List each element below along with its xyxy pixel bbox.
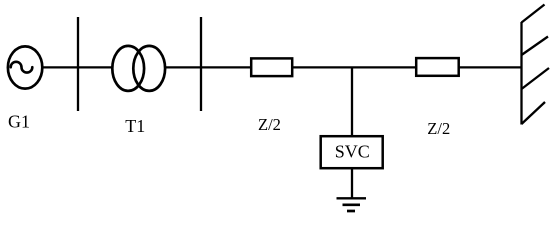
- transformer T1: [112, 46, 165, 91]
- svg-text:Z/2: Z/2: [427, 119, 450, 138]
- label G1: [8, 112, 30, 132]
- generator G1: [8, 46, 42, 88]
- ground: [337, 198, 367, 211]
- svg-text:G1: G1: [8, 112, 30, 132]
- svg-text:SVC: SVC: [335, 141, 370, 161]
- wire: generator to transformer: [43, 66, 113, 68]
- infinite bus (hatched): [522, 5, 550, 125]
- impedance Z/2 left (rect): [251, 58, 292, 76]
- svg-text:T1: T1: [125, 116, 145, 136]
- label T1: [125, 116, 145, 136]
- wire: Z/2 left box to Z/2 right box: [293, 66, 417, 68]
- label Z/2 right: [427, 119, 450, 138]
- wire: SVC to ground: [351, 168, 353, 198]
- bus bar 1: [77, 17, 79, 111]
- svg-text:Z/2: Z/2: [258, 115, 281, 134]
- wire: Z/2 right box to infinite bus: [459, 66, 522, 68]
- impedance Z/2 right (rect): [416, 58, 459, 76]
- wire: transformer to Z/2 left box: [166, 66, 252, 68]
- SVC box U1: [321, 136, 383, 168]
- bus bar 2: [200, 17, 202, 111]
- wire: junction node down to SVC: [351, 67, 353, 136]
- label Z/2 left: [258, 115, 281, 134]
